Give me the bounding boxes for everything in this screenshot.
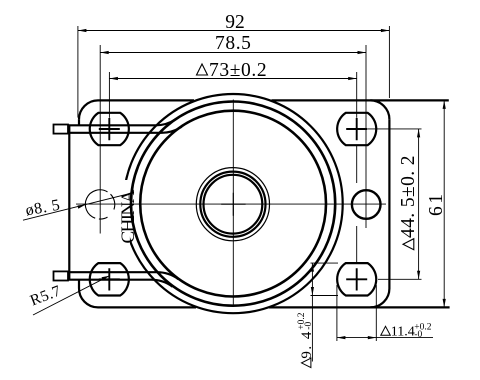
top arm upper line with fillet to big outer circle [68, 119, 176, 125]
hub center cross [221, 193, 245, 216]
bottom arm upper line with fillet to big inner circle [68, 272, 178, 279]
hub outer thin circle [196, 168, 269, 241]
top arm lower line with fillet to big inner circle [68, 127, 182, 133]
plate bottom edge [98, 306, 450, 308]
svg-text:61: 61 [426, 192, 447, 217]
svg-text:-0: -0 [414, 330, 422, 340]
right circle centerline / 78.5 extension [365, 45, 367, 228]
cross bottom-right slot [346, 268, 367, 290]
left column centerline / 78.5 extension [99, 45, 101, 234]
svg-text:CHINA: CHINA [118, 189, 139, 243]
svg-text:73±0.2: 73±0.2 [209, 60, 267, 81]
cross top-left slot [99, 118, 120, 140]
92 extension left [77, 26, 79, 118]
svg-text:92: 92 [225, 12, 245, 33]
dim line 61 [443, 100, 445, 307]
plate corner arcs [79, 100, 98, 119]
dim line 78.5 [100, 52, 366, 54]
svg-text:9. 4: 9. 4 [299, 330, 315, 359]
slot hole top-left [90, 113, 129, 145]
plate top edge [98, 99, 449, 101]
hub middle circle [200, 172, 265, 237]
dim line 92 [78, 30, 390, 32]
wheel circle (swivel outline R110) [124, 94, 343, 313]
cross top-right slot [346, 118, 367, 140]
92 extension right [388, 26, 390, 98]
44.5 extension bottom [378, 278, 422, 280]
11.4 extension lines [337, 285, 376, 341]
main vertical centerline [232, 100, 234, 306]
triangle for 9.4 (rotated) [302, 358, 311, 367]
73 extension left [108, 72, 110, 118]
top axle cap [54, 125, 69, 134]
text mask behind CHINA [115, 180, 130, 244]
9.4 extension ticks [311, 263, 339, 295]
dia 8.5 circle [85, 190, 114, 219]
right edge circle [352, 190, 381, 219]
dim line 44.5 [418, 129, 420, 279]
dim line 11.4 [337, 337, 433, 339]
plate left edge segments [78, 119, 80, 288]
leader dia8.5 [23, 193, 132, 220]
triangle for 11.4 [381, 326, 391, 335]
slot hole bottom-left [90, 263, 129, 295]
svg-text:44. 5±0. 2: 44. 5±0. 2 [398, 155, 419, 238]
bottom axle cap [54, 271, 69, 280]
big outer circle [131, 102, 335, 306]
73 extension right [356, 72, 358, 118]
cross bottom-left slot [99, 268, 120, 290]
svg-text:11.4: 11.4 [391, 325, 415, 340]
bottom arm lower line with fillet to big outer circle [68, 280, 173, 287]
triangle for 44.5 (rotated) [403, 239, 414, 250]
slot hole bottom-right [337, 263, 376, 295]
plate right edge [388, 119, 390, 288]
fork back edge [68, 125, 70, 281]
right column centerline segments [356, 145, 358, 263]
dim line 9.4 [311, 263, 313, 361]
44.5 extension top [368, 128, 422, 130]
slot hole top-right [337, 113, 376, 145]
main horizontal centerline [76, 203, 386, 205]
big inner circle [140, 111, 326, 297]
leader R5.7 [33, 276, 109, 315]
dim line 73 [109, 78, 356, 80]
hub inner circle [204, 175, 263, 234]
triangle for 73 [197, 64, 208, 75]
text 9.4 with tolerance (rotated) [297, 312, 315, 358]
svg-text:78.5: 78.5 [215, 33, 252, 54]
svg-text:-0: -0 [304, 322, 314, 330]
